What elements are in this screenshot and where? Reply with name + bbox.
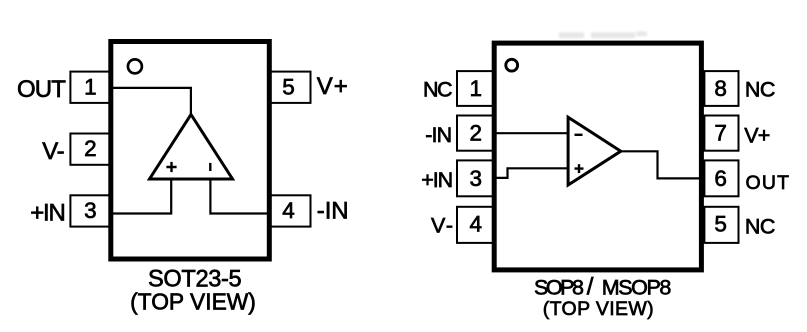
svg-text:5: 5 [714,211,727,236]
svg-text:V-: V- [42,138,64,165]
svg-text:V-: V- [431,213,453,237]
svg-text:NC: NC [745,78,776,102]
svg-text:OUT: OUT [17,76,66,103]
svg-text:7: 7 [714,121,727,146]
svg-text:3: 3 [470,166,483,191]
svg-text:(TOP VIEW): (TOP VIEW) [130,288,256,314]
svg-text:6: 6 [714,166,727,191]
svg-text:(TOP VIEW): (TOP VIEW) [543,298,654,320]
svg-text:V+: V+ [744,123,770,147]
svg-text:2: 2 [470,121,483,146]
svg-text:3: 3 [84,198,97,223]
svg-text:NC: NC [745,215,776,239]
svg-text:+IN: +IN [421,168,453,192]
svg-text:V+: V+ [317,73,348,100]
svg-text:NC: NC [423,77,453,101]
svg-text:-IN: -IN [425,123,452,147]
svg-text:8: 8 [714,76,727,101]
svg-text:SOP8: SOP8 [534,276,584,300]
svg-text:4: 4 [470,211,483,236]
svg-text:5: 5 [282,74,295,99]
svg-text:/: / [587,274,594,301]
svg-text:-IN: -IN [317,198,349,225]
svg-text:1: 1 [470,76,483,101]
svg-text:4: 4 [282,198,295,223]
svg-text:OUT: OUT [746,172,790,194]
svg-text:+IN: +IN [30,200,66,227]
svg-text:MSOP8: MSOP8 [602,276,672,300]
svg-text:2: 2 [84,136,97,161]
svg-text:1: 1 [84,74,97,99]
